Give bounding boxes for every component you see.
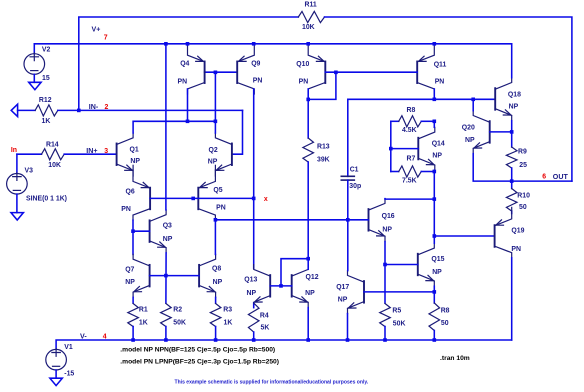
svg-text:NP: NP bbox=[432, 153, 442, 160]
svg-text:Q12: Q12 bbox=[306, 274, 319, 281]
svg-text:NP: NP bbox=[163, 236, 173, 243]
svg-text:Q10: Q10 bbox=[296, 61, 309, 68]
svg-text:.tran 10m: .tran 10m bbox=[440, 355, 470, 362]
svg-text:OUT: OUT bbox=[553, 173, 569, 181]
svg-text:Q15: Q15 bbox=[431, 256, 444, 263]
svg-text:V1: V1 bbox=[64, 344, 73, 351]
svg-text:4: 4 bbox=[103, 333, 107, 340]
svg-text:Q19: Q19 bbox=[511, 227, 524, 234]
svg-text:2: 2 bbox=[105, 104, 109, 111]
svg-text:R14: R14 bbox=[46, 141, 59, 148]
svg-text:R9: R9 bbox=[518, 148, 527, 155]
svg-text:IN+: IN+ bbox=[86, 147, 97, 155]
svg-text:R12: R12 bbox=[39, 97, 52, 104]
svg-text:PN: PN bbox=[299, 78, 309, 85]
svg-text:Q2: Q2 bbox=[209, 147, 218, 154]
svg-text:NP: NP bbox=[338, 296, 348, 303]
svg-text:Q14: Q14 bbox=[432, 140, 445, 147]
svg-text:39K: 39K bbox=[317, 156, 330, 163]
svg-text:NP: NP bbox=[432, 269, 442, 276]
svg-text:5K: 5K bbox=[261, 325, 270, 332]
svg-text:NP: NP bbox=[208, 159, 218, 166]
svg-text:PN: PN bbox=[121, 206, 131, 213]
svg-text:Q8: Q8 bbox=[212, 265, 221, 272]
svg-text:6: 6 bbox=[542, 174, 546, 181]
svg-text:R7: R7 bbox=[407, 156, 416, 163]
svg-text:NP: NP bbox=[213, 279, 223, 286]
svg-text:R8: R8 bbox=[441, 307, 450, 314]
svg-text:50: 50 bbox=[519, 204, 527, 211]
svg-text:PN: PN bbox=[253, 78, 263, 85]
svg-text:10K: 10K bbox=[302, 24, 315, 31]
svg-text:Q6: Q6 bbox=[126, 188, 135, 195]
svg-text:3: 3 bbox=[104, 148, 108, 155]
svg-text:NP: NP bbox=[382, 227, 392, 234]
svg-text:NP: NP bbox=[305, 290, 315, 297]
svg-text:R3: R3 bbox=[223, 306, 232, 313]
svg-text:V2: V2 bbox=[42, 46, 51, 53]
svg-text:15: 15 bbox=[42, 75, 50, 82]
svg-text:R1: R1 bbox=[139, 306, 148, 313]
svg-text:R10: R10 bbox=[517, 192, 530, 199]
svg-text:NP: NP bbox=[247, 290, 257, 297]
svg-text:Q16: Q16 bbox=[382, 213, 395, 220]
svg-text:Q3: Q3 bbox=[163, 222, 172, 229]
svg-text:30p: 30p bbox=[349, 183, 361, 190]
svg-text:This example schematic is supp: This example schematic is supplied for i… bbox=[175, 379, 369, 385]
svg-text:.model NP NPN(BF=125 Cje=.5p C: .model NP NPN(BF=125 Cje=.5p Cjo=.5p Rb=… bbox=[120, 346, 275, 353]
svg-text:V-: V- bbox=[80, 332, 87, 340]
svg-text:Q20: Q20 bbox=[462, 125, 475, 132]
svg-text:Q7: Q7 bbox=[125, 266, 134, 273]
svg-text:NP: NP bbox=[509, 104, 519, 111]
svg-text:1K: 1K bbox=[139, 320, 148, 327]
svg-text:PN: PN bbox=[435, 79, 445, 86]
svg-text:25: 25 bbox=[519, 162, 527, 169]
svg-text:1K: 1K bbox=[224, 320, 233, 327]
svg-text:PN: PN bbox=[216, 204, 226, 211]
svg-text:V+: V+ bbox=[92, 25, 101, 33]
svg-text:-15: -15 bbox=[64, 371, 74, 378]
svg-text:7.5K: 7.5K bbox=[402, 178, 417, 185]
svg-text:In: In bbox=[11, 147, 17, 154]
svg-text:Q17: Q17 bbox=[336, 284, 349, 291]
svg-text:7: 7 bbox=[104, 35, 108, 42]
svg-text:V3: V3 bbox=[25, 167, 34, 174]
svg-text:10K: 10K bbox=[48, 162, 61, 169]
svg-text:.model PN LPNP(BF=25 Cje=.3p C: .model PN LPNP(BF=25 Cje=.3p Cjo=1.5p Rb… bbox=[120, 358, 279, 365]
svg-text:Q11: Q11 bbox=[434, 61, 447, 68]
svg-text:x: x bbox=[264, 196, 268, 203]
svg-text:IN-: IN- bbox=[89, 103, 99, 111]
svg-text:NP: NP bbox=[465, 137, 475, 144]
svg-text:1K: 1K bbox=[42, 118, 51, 125]
svg-text:Q1: Q1 bbox=[130, 147, 139, 154]
svg-text:Q18: Q18 bbox=[508, 91, 521, 98]
svg-text:Q5: Q5 bbox=[213, 187, 222, 194]
svg-text:R8: R8 bbox=[407, 107, 416, 114]
svg-text:50K: 50K bbox=[173, 320, 186, 327]
svg-text:50K: 50K bbox=[393, 321, 406, 328]
svg-text:Q9: Q9 bbox=[251, 60, 260, 67]
svg-text:SINE(0 1 1K): SINE(0 1 1K) bbox=[26, 196, 67, 203]
svg-text:R5: R5 bbox=[392, 307, 401, 314]
svg-text:4.5K: 4.5K bbox=[402, 127, 417, 134]
svg-text:NP: NP bbox=[130, 158, 140, 165]
svg-text:R11: R11 bbox=[305, 2, 317, 9]
svg-text:C1: C1 bbox=[350, 167, 359, 174]
svg-text:Q13: Q13 bbox=[244, 277, 257, 284]
svg-text:Q4: Q4 bbox=[180, 60, 189, 67]
svg-text:R2: R2 bbox=[173, 306, 182, 313]
svg-text:R4: R4 bbox=[260, 312, 269, 319]
svg-text:PN: PN bbox=[511, 246, 521, 253]
svg-text:R13: R13 bbox=[317, 143, 330, 150]
svg-text:NP: NP bbox=[125, 279, 135, 286]
svg-text:PN: PN bbox=[178, 78, 188, 85]
svg-text:50: 50 bbox=[441, 320, 449, 327]
